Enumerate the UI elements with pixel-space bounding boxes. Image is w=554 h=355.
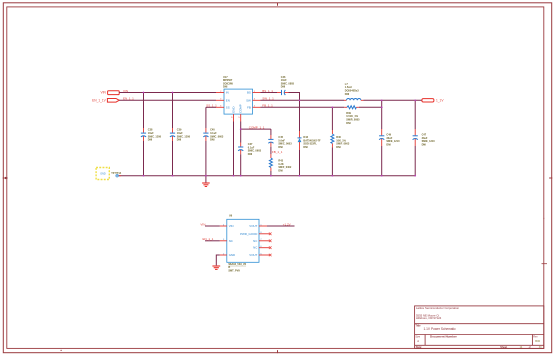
junction VIN/C38 bbox=[143, 92, 145, 94]
junction FB/C49 bbox=[381, 106, 383, 108]
pin NC stub bbox=[220, 240, 227, 242]
resistor R39 (FB series) bbox=[344, 106, 360, 125]
wire IC GND down bbox=[233, 122, 235, 176]
capacitor C45 (comp zero) bbox=[268, 129, 292, 149]
capacitor C40 (soft-start) bbox=[203, 107, 224, 175]
yellow DNI note box bbox=[96, 168, 109, 180]
junction rail R40 bbox=[332, 175, 334, 177]
svg-text:VOUT: VOUT bbox=[249, 253, 257, 257]
pin VOUT2 stub bbox=[259, 254, 269, 256]
resistor R40 (FB lower divider) bbox=[331, 107, 350, 175]
svg-text:B00: B00 bbox=[535, 339, 540, 343]
wire SW net bbox=[261, 99, 345, 101]
svg-text:NC: NC bbox=[253, 246, 257, 250]
junction COMP branch bbox=[240, 128, 242, 130]
no-connect X VOUT2 bbox=[269, 254, 272, 257]
capacitor C38 bbox=[141, 93, 162, 176]
pin VOUT stub bbox=[259, 225, 267, 227]
svg-text:A: A bbox=[417, 339, 419, 343]
svg-text:Size: Size bbox=[415, 336, 420, 339]
pin GND stub bbox=[233, 114, 235, 121]
svg-text:Lattice Semiconductor Corporat: Lattice Semiconductor Corporation bbox=[416, 306, 460, 310]
svg-text:SW: SW bbox=[246, 98, 251, 102]
svg-text:DNI: DNI bbox=[148, 139, 153, 142]
pin NC3 stub bbox=[259, 247, 269, 249]
wire FB net bbox=[261, 106, 345, 108]
zone dot bottom border bbox=[61, 350, 62, 351]
svg-text:Date:: Date: bbox=[416, 346, 422, 349]
svg-text:BS_1_1: BS_1_1 bbox=[262, 89, 273, 93]
wire COMP vertical bbox=[240, 122, 242, 143]
zone tick arrow left bbox=[5, 177, 8, 179]
svg-text:VOUT: VOUT bbox=[249, 224, 257, 228]
junction rail C38 bbox=[143, 175, 145, 177]
wire between C45 and R43 bbox=[270, 147, 272, 154]
wire U6 VOUT bbox=[267, 225, 295, 227]
svg-text:DNI: DNI bbox=[223, 86, 228, 89]
wire BS net bbox=[261, 92, 278, 94]
svg-text:SMT_PV9: SMT_PV9 bbox=[228, 270, 240, 273]
junction rail C47 bbox=[414, 175, 416, 177]
junction out/C49 bbox=[381, 99, 383, 101]
svg-text:FB: FB bbox=[247, 105, 251, 109]
svg-text:NC: NC bbox=[229, 239, 233, 243]
svg-text:EN: EN bbox=[226, 98, 230, 102]
svg-text:GND: GND bbox=[229, 253, 235, 257]
zone tick right border bbox=[542, 263, 548, 265]
svg-text:IN: IN bbox=[226, 91, 229, 95]
capacitor C46 (bootstrap) bbox=[277, 76, 295, 95]
svg-text:1.1V Power Schematic: 1.1V Power Schematic bbox=[424, 327, 457, 331]
pin IN stub bbox=[216, 92, 224, 94]
junction FB/R40 bbox=[332, 106, 334, 108]
svg-text:DNI: DNI bbox=[303, 146, 308, 149]
port VIN (input) bbox=[100, 91, 119, 95]
svg-text:DNI: DNI bbox=[386, 144, 391, 147]
junction rail C40/gnd bbox=[205, 175, 207, 177]
svg-text:SW_1_1: SW_1_1 bbox=[262, 97, 274, 101]
svg-text:VIN: VIN bbox=[100, 91, 106, 95]
svg-text:VIN: VIN bbox=[123, 89, 128, 93]
svg-text:EN_1_1: EN_1_1 bbox=[203, 237, 214, 241]
svg-text:Sheet: Sheet bbox=[500, 346, 507, 349]
svg-text:1_1V: 1_1V bbox=[436, 98, 444, 102]
diode D43 (SW catch diode) bbox=[298, 100, 322, 175]
resistor R43 bbox=[269, 154, 292, 176]
svg-text:+1.2V: +1.2V bbox=[283, 223, 291, 227]
pin NC2 stub bbox=[259, 240, 269, 242]
capacitor C49 (output) bbox=[379, 107, 400, 175]
svg-text:NC: NC bbox=[253, 239, 257, 243]
no-connect X PWR_GOOD bbox=[269, 233, 272, 236]
wire L7 to output port bbox=[364, 99, 423, 101]
ground (U6) bbox=[212, 265, 220, 267]
title block bbox=[415, 306, 544, 349]
wire EN bbox=[119, 99, 216, 101]
capacitor C37 (comp) bbox=[238, 143, 262, 176]
svg-text:of: of bbox=[529, 346, 531, 349]
op-amp U17 buck regulator IC bbox=[216, 76, 261, 122]
svg-text:DNI: DNI bbox=[336, 146, 341, 149]
svg-text:BS: BS bbox=[247, 91, 251, 95]
capacitor C39 bbox=[170, 93, 191, 176]
svg-text:Title: Title bbox=[415, 325, 421, 328]
wire COMP branch horizontal bbox=[241, 128, 271, 130]
junction rail C39 bbox=[172, 175, 174, 177]
inductor L7 bbox=[344, 83, 364, 100]
wire U6 EN bbox=[205, 240, 220, 242]
svg-text:DNI: DNI bbox=[210, 139, 215, 142]
svg-text:S8A04_533_V6: S8A04_533_V6 bbox=[228, 263, 246, 266]
junction rail IC GND bbox=[233, 175, 235, 177]
svg-text:FB_1_1: FB_1_1 bbox=[262, 104, 273, 108]
junction dots bbox=[143, 92, 416, 177]
wire U6 GND bbox=[216, 255, 220, 265]
wire U6 VIN bbox=[205, 225, 220, 227]
svg-text:VIN: VIN bbox=[200, 223, 205, 227]
wire BS to SW node bbox=[289, 93, 300, 101]
pin SS stub bbox=[216, 106, 224, 108]
pin FB stub bbox=[253, 106, 261, 108]
svg-text:EN_1_1: EN_1_1 bbox=[123, 97, 134, 101]
junction SW/D43 bbox=[299, 99, 301, 101]
pin GND stub bbox=[220, 254, 227, 256]
IC U6 bbox=[220, 214, 269, 272]
junction rail D43 bbox=[299, 175, 301, 177]
pin SW stub bbox=[253, 99, 261, 101]
wire VIN rail bbox=[119, 92, 216, 94]
test point TP14 bbox=[111, 172, 121, 177]
pin COMP stub bbox=[240, 114, 242, 121]
svg-text:DNI: DNI bbox=[248, 153, 253, 156]
svg-text:Hillsboro, OR 97124: Hillsboro, OR 97124 bbox=[416, 316, 442, 320]
title block text bbox=[415, 306, 542, 349]
svg-text:FB_1_1: FB_1_1 bbox=[272, 150, 283, 154]
capacitor C47 (output) bbox=[413, 100, 436, 175]
pin EN stub bbox=[216, 99, 224, 101]
wire SS horizontal bbox=[206, 106, 216, 108]
pin BS stub bbox=[253, 92, 261, 94]
svg-text:PWR_GOOD: PWR_GOOD bbox=[240, 232, 257, 236]
pin VIN stub bbox=[220, 225, 227, 227]
port 1_1V (output) bbox=[422, 98, 444, 102]
svg-text:TP TP14: TP TP14 bbox=[111, 172, 121, 175]
svg-text:EN_1_1V: EN_1_1V bbox=[92, 99, 107, 103]
svg-text:SS: SS bbox=[226, 105, 230, 109]
svg-text:SS_1_1: SS_1_1 bbox=[206, 104, 217, 108]
no-connect X NC3 bbox=[269, 246, 272, 249]
wire FB to output node bbox=[359, 100, 382, 107]
junction rail C49 bbox=[381, 175, 383, 177]
svg-text:VIN: VIN bbox=[229, 224, 234, 228]
svg-text:DNI: DNI bbox=[177, 139, 182, 142]
pin PWR_GOOD stub bbox=[259, 233, 269, 235]
svg-text:DNI: DNI bbox=[422, 144, 427, 147]
svg-text:GND: GND bbox=[100, 173, 106, 176]
svg-text:Document Number: Document Number bbox=[430, 335, 458, 339]
svg-text:DNI: DNI bbox=[281, 86, 286, 89]
svg-text:DNI: DNI bbox=[278, 169, 283, 172]
svg-text:COMP: COMP bbox=[239, 104, 243, 113]
port EN_1_1V (input) bbox=[92, 99, 119, 103]
wire GND rail bbox=[119, 175, 415, 177]
svg-text:DNI: DNI bbox=[346, 122, 351, 125]
svg-text:DNI: DNI bbox=[278, 146, 283, 149]
svg-text:GND: GND bbox=[231, 107, 235, 113]
junction rail R43 bbox=[270, 175, 272, 177]
junction out/C47 bbox=[414, 99, 416, 101]
junction VIN/C39 bbox=[172, 92, 174, 94]
no-connect X NC2 bbox=[269, 240, 272, 243]
ground (main rail) bbox=[202, 176, 210, 187]
svg-text:COMP_1_1: COMP_1_1 bbox=[249, 126, 265, 130]
junction rail C37 bbox=[240, 175, 242, 177]
svg-text:DNI: DNI bbox=[345, 93, 350, 96]
